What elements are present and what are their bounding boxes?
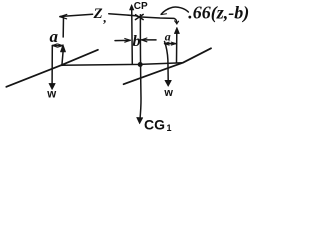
dimension Z1 line xyxy=(60,14,139,19)
label CP xyxy=(134,1,148,12)
dimension b right arrow xyxy=(141,38,156,42)
svg-text:w: w xyxy=(163,87,173,99)
svg-text:Z: Z xyxy=(93,6,103,22)
datum line joining steps xyxy=(61,63,183,66)
label Z1 xyxy=(93,6,107,25)
node step junction dot xyxy=(138,62,143,67)
force w left line xyxy=(49,46,55,90)
svg-text:,: , xyxy=(103,10,106,25)
dimension .66(z1-b) line with down hook xyxy=(142,17,179,24)
label .66(z1-b) xyxy=(188,2,249,23)
extension line left of Z1 xyxy=(62,17,64,38)
arrow up right step xyxy=(174,27,179,63)
label b xyxy=(133,33,141,50)
svg-text:b: b xyxy=(133,33,141,50)
svg-text:1: 1 xyxy=(167,123,172,133)
arrow up left step xyxy=(60,44,65,65)
arrow CG1 head xyxy=(137,117,143,123)
CG1 vertical line through dot xyxy=(140,15,141,121)
label w left xyxy=(46,89,56,101)
label a left xyxy=(50,27,59,46)
label a right xyxy=(165,29,171,43)
arrow up at CP (left vertical of b gap) xyxy=(130,5,134,65)
dimension a right (double arrow) xyxy=(164,42,176,45)
svg-text:a: a xyxy=(165,29,171,43)
svg-text:w: w xyxy=(46,89,56,101)
dimension b left arrow xyxy=(115,39,130,43)
x mark at CP xyxy=(135,14,143,19)
label w right xyxy=(163,87,173,99)
svg-text:a: a xyxy=(50,27,59,46)
label CG1 xyxy=(144,117,172,134)
svg-text:CG: CG xyxy=(144,117,165,133)
left float slant line xyxy=(6,50,98,87)
svg-text:.66(z,-b): .66(z,-b) xyxy=(188,2,249,23)
right hull slant line xyxy=(124,48,211,84)
leader curve for .66(z1-b) xyxy=(161,7,189,15)
dimension a left (double arrow) xyxy=(52,44,62,47)
force w right line xyxy=(165,42,172,87)
svg-text:CP: CP xyxy=(134,1,148,12)
